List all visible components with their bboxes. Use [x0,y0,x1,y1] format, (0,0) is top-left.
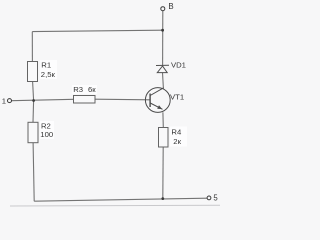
svg-text:R4: R4 [171,127,182,136]
wire left rail upper [31,32,33,62]
svg-text:VD1: VD1 [171,61,186,70]
wire bottom rail [34,198,207,201]
wire R4 to bottom rail [162,147,164,199]
wire left rail lower [33,143,34,202]
wire right rail terminal 6 to diode [162,11,164,66]
wire left rail R1 to node [33,82,34,101]
svg-text:6к: 6к [88,85,96,94]
diode VD1 [156,61,186,73]
node top junction [161,29,164,32]
terminal 1 [2,97,12,106]
svg-text:R1: R1 [41,61,51,70]
terminal 5 [207,193,218,202]
resistor R1 [28,60,58,82]
resistor R2 [28,121,54,143]
wire input from terminal 1 to R3 [12,99,74,100]
scan edge bottom [10,204,220,207]
svg-text:100: 100 [40,130,53,139]
wire left rail node to R2 [32,101,35,123]
svg-text:2,5к: 2,5к [41,70,56,79]
svg-text:B: B [168,2,173,11]
node bottom junction [161,197,164,200]
svg-text:1: 1 [2,97,6,106]
svg-text:5: 5 [213,193,218,202]
svg-text:R2: R2 [41,122,51,131]
wire R3 to base [95,98,150,101]
svg-text:2к: 2к [173,137,181,146]
wire emitter to R4 [162,112,164,127]
resistor R3 [72,85,97,103]
terminal B [161,2,174,11]
svg-text:R3: R3 [73,85,83,94]
wire top rail [32,30,162,31]
wire diode to collector [162,73,165,89]
node input junction [32,99,35,102]
resistor R4 [159,127,188,148]
svg-text:VT1: VT1 [170,92,184,101]
transistor VT1 [145,88,184,113]
